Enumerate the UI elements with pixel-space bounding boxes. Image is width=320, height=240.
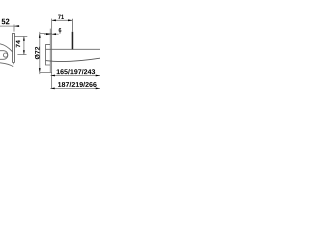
arrow diameter72 bottom bbox=[39, 68, 41, 72]
arrow 165 right bbox=[96, 75, 100, 77]
body bottom curve (left view) bbox=[0, 63, 13, 67]
extension line 74 bottom bbox=[17, 54, 26, 56]
arrow 187 left bbox=[50, 88, 54, 90]
arrow 165 left bbox=[51, 75, 55, 77]
arrow diameter72 top bbox=[39, 34, 41, 38]
dimension line 52 bbox=[0, 25, 20, 27]
knob end-view pillar (left view) bbox=[13, 33, 15, 62]
dimension label 52 bbox=[2, 19, 10, 25]
arrow 71 right bbox=[68, 19, 72, 21]
dimension label diameter 72 (rotated) bbox=[35, 47, 40, 59]
flange boss outline bbox=[46, 45, 51, 65]
diverter knob bbox=[72, 32, 74, 50]
dimension line diameter 72 bbox=[39, 32, 41, 74]
aerator circle (left view) bbox=[3, 53, 7, 57]
arrow 6 left (outside pointing right) bbox=[46, 33, 50, 35]
extension line 52 bbox=[13, 25, 15, 32]
arrow 74 bottom bbox=[23, 50, 25, 54]
leader line 6 bbox=[59, 32, 61, 34]
dimension label 74 (rotated) bbox=[16, 40, 20, 47]
dimension label 187/219/266 bbox=[58, 82, 97, 87]
dimension line 165/197/243 bbox=[51, 75, 100, 77]
flange front face bbox=[49, 29, 51, 73]
dimension line 71 bbox=[52, 19, 73, 21]
dimension label 6 bbox=[59, 28, 62, 32]
pillar stub below cap bbox=[13, 62, 15, 64]
extension line 74 top bbox=[15, 35, 28, 37]
arrow 71 left bbox=[52, 19, 56, 21]
extension tick bottom (flange bottom) bbox=[39, 71, 51, 73]
body top arc (left view) bbox=[0, 44, 13, 52]
dimension label 165/197/243 bbox=[57, 69, 96, 74]
arrow 74 top bbox=[23, 36, 25, 40]
arrow 52 (outside, pointing left) bbox=[14, 25, 19, 27]
extension tick top (flange top) bbox=[39, 33, 51, 35]
spout tip stadium outline (left view) bbox=[0, 51, 8, 60]
arrow 6 right (outside pointing left) bbox=[52, 33, 56, 35]
diverter knob extension line bbox=[71, 19, 73, 32]
spout pipe top edge bbox=[46, 48, 101, 50]
arrow 187 right bbox=[96, 88, 100, 90]
dimension line 6 bbox=[44, 33, 59, 35]
wall line bbox=[51, 19, 53, 89]
dimension line 74 bbox=[23, 36, 25, 54]
dimension line 187/219/266 bbox=[50, 87, 100, 89]
spout pipe bottom edge (tapered) bbox=[46, 58, 101, 61]
dimension label 71 bbox=[58, 15, 64, 19]
